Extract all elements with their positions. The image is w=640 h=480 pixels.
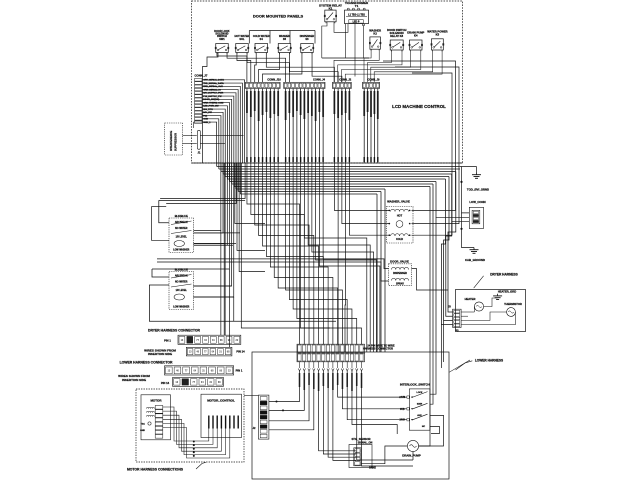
connector J1 blade	[198, 130, 201, 154]
junction dot LOW_CONN wire bottom	[460, 228, 462, 230]
svg-text:K2: K2	[373, 32, 377, 36]
wires left bundle verticals	[152, 163, 330, 347]
svg-text:PIN 1: PIN 1	[236, 369, 243, 373]
svg-text:24VA: 24VA	[400, 419, 406, 422]
svg-text:INTERLOCK_SWITCH: INTERLOCK_SWITCH	[400, 383, 430, 387]
wires left bundle to dryer strips	[0, 0, 1, 1]
label LOWER HARNESS CONNECTOR	[120, 361, 173, 365]
connector lower-harness row1	[165, 366, 243, 375]
wire PS1 right a	[194, 232, 241, 234]
interlock switch S_IL	[399, 383, 429, 431]
svg-text:L1 TB2-L1 TB2: L1 TB2-L1 TB2	[348, 13, 365, 16]
wires J10 to 24-pin connector	[247, 163, 338, 344]
pointer lower harness arrow	[449, 360, 470, 372]
svg-text:P3: P3	[456, 330, 460, 333]
label 24 pin	[363, 343, 395, 350]
wires switches to connectors	[217, 53, 342, 83]
svg-text:PIN 14: PIN 14	[236, 349, 245, 353]
svg-text:MOTOR: MOTOR	[150, 399, 162, 403]
relay K4	[407, 31, 424, 52]
wire labels under connectors	[246, 91, 379, 121]
wire door valve feed a	[157, 259, 389, 269]
thermistor TH1	[504, 302, 522, 316]
motor harness outline	[136, 389, 244, 462]
heater HTR1	[465, 297, 484, 311]
connector CONN_J4	[284, 77, 326, 88]
svg-text:J1: J1	[198, 151, 201, 155]
svg-text:HEATER: HEATER	[465, 297, 476, 301]
svg-text:MOTOR_CONTROL: MOTOR_CONTROL	[207, 399, 235, 403]
svg-text:HARNESS CONNECTOR: HARNESS CONNECTOR	[363, 347, 393, 351]
svg-text:PIN 1: PIN 1	[164, 339, 171, 343]
wire PS2 right b	[194, 296, 234, 298]
connector LOW_CONN	[469, 200, 485, 228]
relay K1 SYSTEM RELAY	[319, 4, 342, 24]
wires K1	[322, 3, 348, 59]
wire to LOW_CONN c	[452, 221, 470, 223]
svg-text:1/3 LEVEL: 1/3 LEVEL	[176, 237, 188, 239]
wires bundle inside control box	[246, 89, 378, 164]
svg-text:DISPENSER: DISPENSER	[393, 272, 407, 275]
svg-text:LCD MACHINE CONTROL: LCD MACHINE CONTROL	[392, 104, 446, 109]
wires J7 cascade	[202, 80, 245, 163]
svg-text:95: 95	[219, 370, 222, 373]
connector J2 lower left	[253, 395, 269, 439]
svg-text:68: 68	[218, 381, 221, 384]
connector CONN_J10	[245, 77, 281, 88]
svg-text:INTERFERENCE: INTERFERENCE	[169, 131, 173, 151]
svg-text:J3: J3	[448, 306, 451, 309]
svg-text:77: 77	[185, 370, 188, 373]
svg-text:TXD_SERIAL_DATA: TXD_SERIAL_DATA	[203, 82, 224, 85]
motor windings	[140, 408, 154, 433]
label DRYER HARNESS CONNECTOR	[148, 329, 201, 333]
connector J7 pin rows	[195, 79, 225, 124]
svg-text:SIGNAL_ON: SIGNAL_ON	[358, 441, 373, 444]
svg-text:S5: S5	[283, 38, 287, 41]
svg-text:SOL: SOL	[239, 38, 245, 41]
svg-text:COLD: COLD	[396, 238, 403, 241]
svg-text:31: 31	[212, 339, 215, 342]
wires lower harness internal	[269, 371, 444, 466]
wire FL1 to J1b	[183, 143, 197, 145]
wires J4 to 24-pin connector	[286, 163, 380, 352]
solenoid valve DOOR_VALVE dispenser	[389, 259, 412, 285]
svg-text:J2: J2	[253, 426, 256, 430]
label wires shown 1	[144, 349, 176, 357]
svg-text:CONN_J10: CONN_J10	[267, 77, 281, 81]
svg-text:S6: S6	[305, 38, 309, 41]
svg-text:TOD_/5V/_GRND: TOD_/5V/_GRND	[467, 188, 489, 192]
svg-text:MAIN: MAIN	[417, 403, 423, 406]
wires fan to dryer J3	[441, 172, 455, 369]
junction dot LOW_CONN wire top	[460, 181, 462, 183]
wires right feeds into lower box	[419, 352, 436, 446]
wire PS2 right a	[194, 285, 232, 287]
svg-text:04: 04	[193, 370, 196, 373]
wire FL1 to J1a	[183, 134, 197, 136]
wire PS1 right b	[194, 243, 237, 245]
svg-text:LOCK: LOCK	[417, 392, 423, 394]
svg-text:NC: NC	[422, 426, 426, 428]
motor control pins	[208, 416, 239, 429]
connector 24-pin wire-to-wire	[297, 344, 365, 362]
svg-text:P24: P24	[203, 114, 208, 117]
svg-text:77: 77	[204, 351, 207, 354]
connector J3 dryer	[448, 306, 461, 333]
switch S3 door panel	[253, 35, 270, 54]
svg-text:PIN 14: PIN 14	[161, 381, 170, 385]
relay K2	[369, 29, 381, 51]
wire door valve feed b	[157, 262, 389, 281]
svg-text:CONN_J4: CONN_J4	[313, 77, 326, 81]
wire to LOW_CONN a	[462, 167, 470, 213]
svg-text:13: 13	[181, 339, 184, 342]
connector dryer-harness row2	[186, 347, 245, 356]
wire PS2 left in	[152, 269, 169, 277]
svg-text:31: 31	[202, 370, 205, 373]
svg-text:HOT: HOT	[397, 215, 403, 218]
svg-text:GRY_SERIAL_DATA: GRY_SERIAL_DATA	[203, 79, 224, 82]
svg-text:DRYER HARNESS CONNECTOR: DRYER HARNESS CONNECTOR	[148, 329, 201, 333]
svg-text:INSERTION SIDE: INSERTION SIDE	[122, 378, 146, 382]
LCD machine control board outline U1	[192, 1, 463, 163]
wire PS1 right c	[194, 244, 234, 246]
connector J7 label	[195, 74, 208, 78]
svg-text:THERMISTOR: THERMISTOR	[504, 302, 522, 306]
label MOTOR HARNESS CONNECTIONS	[127, 462, 206, 471]
svg-text:AUX: AUX	[417, 414, 422, 417]
svg-text:LOW_CONN: LOW_CONN	[469, 200, 485, 204]
svg-text:31: 31	[219, 351, 222, 354]
wire J1 right b	[200, 143, 225, 145]
interference suppressor FL1	[165, 123, 183, 155]
svg-text:LED P: LED P	[353, 22, 360, 24]
connector CONN_J2	[333, 77, 352, 88]
svg-text:TAC: TAC	[141, 423, 146, 426]
switch S5 door panel	[300, 35, 315, 54]
svg-text:CONN_J7: CONN_J7	[195, 74, 208, 78]
svg-text:68: 68	[220, 339, 223, 342]
connector lower-harness row2	[161, 378, 224, 387]
svg-text:CAB_GROUND: CAB_GROUND	[465, 258, 485, 262]
svg-text:DRAIN_PUMP: DRAIN_PUMP	[402, 454, 421, 458]
wire J1 right a	[200, 134, 243, 136]
wire J1 stub	[194, 122, 206, 128]
svg-text:68: 68	[211, 370, 214, 373]
connector CONN_J9	[363, 77, 381, 88]
ground TOD_5V_GRND	[460, 167, 489, 192]
connector dryer-harness row1	[164, 335, 241, 344]
svg-text:1/3 LEVEL: 1/3 LEVEL	[176, 290, 188, 292]
wires valve returns	[412, 163, 460, 290]
svg-text:24VB: 24VB	[399, 396, 405, 399]
svg-text:LOWER HARNESS CONNECTOR: LOWER HARNESS CONNECTOR	[120, 361, 173, 365]
svg-text:04: 04	[204, 339, 207, 342]
wires J2 to valves	[334, 163, 389, 352]
wire bus y58	[322, 58, 459, 163]
svg-text:WASHER_VALVE: WASHER_VALVE	[387, 199, 410, 203]
svg-text:CONN_J9: CONN_J9	[368, 77, 381, 81]
solenoid valve WASHER_VALVE	[387, 199, 414, 243]
svg-text:SW1: SW1	[219, 38, 225, 41]
transformer T1	[345, 1, 369, 26]
svg-text:22: 22	[236, 339, 239, 342]
svg-text:13: 13	[167, 370, 170, 373]
label DRYER HARNESS	[474, 273, 518, 289]
svg-text:DRYER HARNESS: DRYER HARNESS	[490, 273, 518, 277]
svg-text:INSERTION SIDE: INSERTION SIDE	[148, 352, 172, 356]
wires dryer internal	[461, 298, 515, 325]
relay K3	[387, 28, 406, 52]
svg-text:04: 04	[212, 351, 215, 354]
wires relays to connectors	[334, 49, 442, 82]
wires to dryer harness	[0, 0, 1, 1]
svg-text:BLK/BLUE: BLK/BLUE	[175, 214, 188, 218]
label wires shown 2	[118, 374, 150, 382]
svg-text:LOWER HARNESS: LOWER HARNESS	[475, 359, 503, 363]
wire PS1 feed top	[159, 199, 245, 201]
svg-text:LOW WASHER: LOW WASHER	[173, 249, 189, 252]
relay K5	[427, 30, 447, 52]
svg-text:13: 13	[189, 351, 192, 354]
svg-text:HEATER_GRD: HEATER_GRD	[498, 290, 516, 294]
lower harness outline	[252, 352, 449, 479]
svg-text:40: 40	[196, 351, 199, 354]
label LCD MACHINE CONTROL	[392, 104, 446, 109]
pressure switch PS2 BLK/BLUE	[169, 267, 194, 309]
motor control box	[201, 394, 242, 437]
pressure switch PS1 BLK/BLUE	[169, 214, 194, 253]
wire motor box to J2	[244, 395, 258, 397]
svg-text:CONN_J2: CONN_J2	[339, 77, 352, 81]
ground HEATER_GRD	[493, 290, 516, 300]
svg-text:40: 40	[176, 370, 179, 373]
wires left bundle below box	[0, 0, 1, 1]
svg-text:MOTOR HARNESS CONNECTIONS: MOTOR HARNESS CONNECTIONS	[127, 468, 184, 472]
svg-text:RXD_SERIAL_CLK: RXD_SERIAL_CLK	[203, 85, 223, 88]
switch S4 door panel	[277, 35, 291, 54]
switch S1 door panel	[214, 30, 229, 54]
svg-text:77: 77	[196, 339, 199, 342]
svg-text:GRND: GRND	[369, 466, 376, 469]
svg-text:RELAY K3: RELAY K3	[390, 34, 403, 38]
svg-text:T1: T1	[355, 4, 359, 8]
label LOWER HARNESS	[456, 359, 504, 371]
switch S2 door panel	[235, 35, 250, 54]
svg-text:SUPPRESSOR: SUPPRESSOR	[174, 133, 178, 151]
svg-text:DOOR MOUNTED PANELS: DOOR MOUNTED PANELS	[253, 14, 304, 19]
ground CAB_GROUND	[462, 213, 486, 262]
dryer harness outline	[456, 290, 526, 332]
svg-text:77: 77	[192, 381, 195, 384]
svg-text:DOOR_VALVE: DOOR_VALVE	[390, 259, 409, 263]
svg-text:13: 13	[175, 381, 178, 384]
svg-text:NO WATER: NO WATER	[175, 227, 188, 230]
svg-text:22: 22	[228, 370, 231, 373]
label DOOR MOUNTED PANELS	[253, 14, 304, 19]
wire arrows below 24-pin connector	[298, 362, 362, 391]
wire PS1 left drop2	[152, 207, 170, 241]
wires AC fan-out bus	[192, 163, 463, 352]
svg-text:68: 68	[227, 351, 230, 354]
wire PS2 left loop	[149, 285, 336, 321]
svg-text:GRN_SERIAL_IO: GRN_SERIAL_IO	[203, 88, 221, 91]
motor connector pins	[155, 406, 163, 439]
svg-text:K5: K5	[436, 33, 440, 37]
svg-text:24V_SW: 24V_SW	[203, 111, 213, 114]
svg-text:S4: S4	[260, 38, 264, 41]
svg-text:31: 31	[209, 381, 212, 384]
wire PS1 left drop	[159, 200, 169, 222]
sensor STG_SENSOR	[349, 437, 376, 469]
wires motor to control	[163, 407, 230, 458]
wire to LOW_CONN b	[436, 216, 470, 218]
svg-text:LOW WASHER: LOW WASHER	[173, 306, 189, 309]
motor M1 box	[141, 395, 171, 440]
motor DRAIN_PUMP	[402, 440, 421, 457]
wires T1 secondary	[346, 24, 364, 77]
svg-text:04: 04	[201, 381, 204, 384]
wires switch feeds top	[203, 31, 316, 164]
svg-text:K4: K4	[414, 34, 418, 38]
svg-text:GND: GND	[140, 430, 145, 432]
svg-text:NO WATER: NO WATER	[175, 281, 188, 284]
svg-text:SPRAY: SPRAY	[396, 282, 404, 285]
